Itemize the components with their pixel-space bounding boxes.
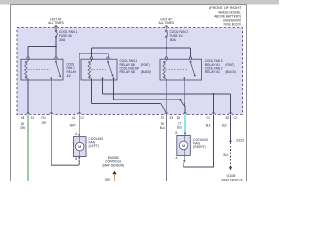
svg-text:BLK: BLK	[222, 123, 227, 127]
svg-text:F10: F10	[41, 116, 46, 120]
svg-text:E8: E8	[21, 116, 24, 120]
svg-text:(MAP SENSOR): (MAP SENSOR)	[103, 164, 125, 168]
svg-text:E4: E4	[170, 116, 174, 120]
svg-text:B2: B2	[177, 116, 181, 120]
svg-text:B: B	[176, 131, 178, 135]
svg-text:M: M	[182, 143, 185, 148]
svg-text:ALL TIMES: ALL TIMES	[159, 21, 175, 25]
svg-text:BLK: BLK	[206, 123, 211, 127]
svg-text:(PONT): (PONT)	[141, 63, 150, 67]
svg-text:WHT: WHT	[70, 124, 76, 128]
svg-text:(BUICK): (BUICK)	[226, 70, 236, 74]
svg-text:FUSE BLOCK: FUSE BLOCK	[224, 22, 242, 26]
svg-text:C2: C2	[234, 116, 238, 120]
svg-text:GRY: GRY	[42, 121, 48, 125]
svg-text:ORN: ORN	[105, 178, 111, 181]
svg-text:BLU: BLU	[177, 125, 183, 129]
svg-text:30A: 30A	[170, 38, 177, 42]
svg-text:(RIGHT): (RIGHT)	[193, 145, 205, 149]
svg-text:(BUICK): (BUICK)	[141, 70, 151, 74]
svg-text:G108: G108	[227, 174, 236, 178]
svg-text:30A: 30A	[59, 38, 66, 42]
svg-text:A1: A1	[72, 116, 75, 120]
svg-text:ALL TIMES: ALL TIMES	[48, 21, 64, 25]
svg-text:C3: C3	[206, 116, 210, 120]
svg-text:RELAY 61: RELAY 61	[205, 70, 220, 74]
svg-text:BLK: BLK	[224, 153, 229, 157]
svg-text:42: 42	[67, 74, 71, 78]
svg-text:(LEFT): (LEFT)	[89, 144, 100, 148]
svg-text:E1: E1	[31, 116, 34, 120]
svg-text:BLU: BLU	[160, 126, 166, 130]
svg-text:RELAY 58: RELAY 58	[120, 70, 135, 74]
svg-text:F3: F3	[161, 116, 164, 120]
svg-text:M: M	[78, 144, 81, 149]
svg-text:(RIGHT FRONT OF: (RIGHT FRONT OF	[221, 179, 243, 182]
svg-text:B: B	[75, 157, 77, 161]
svg-text:S123: S123	[236, 139, 244, 143]
svg-text:GRN: GRN	[20, 126, 25, 130]
svg-text:B3: B3	[226, 116, 230, 120]
svg-text:(PONT): (PONT)	[226, 63, 235, 67]
svg-text:C2: C2	[80, 116, 84, 120]
